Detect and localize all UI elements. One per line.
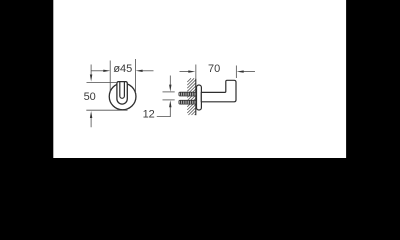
dim 70 left shaft + arrow bbox=[180, 71, 190, 73]
circle C1 (wall plate front view) bbox=[109, 83, 136, 110]
dim Ø45 left extension line bbox=[109, 61, 111, 94]
dim 70 left extension line bbox=[195, 65, 197, 79]
hook tab outer (front view) bbox=[117, 82, 127, 105]
hook tab inner U bbox=[120, 82, 125, 99]
dim 12 bottom shaft + arrow + leader bbox=[157, 107, 171, 117]
background panel bbox=[53, 0, 346, 158]
dim 70 right extension line bbox=[235, 66, 237, 79]
dim 50 top shaft + arrow bbox=[90, 65, 92, 76]
svg-text:ø45: ø45 bbox=[113, 63, 132, 75]
flange (mounting plate side view) bbox=[197, 85, 202, 110]
dim 12 bottom extension line bbox=[163, 99, 175, 101]
wall face line bbox=[195, 78, 197, 115]
hook arm + tip (side view) bbox=[201, 80, 236, 102]
dim Ø45 right extension line bbox=[135, 59, 137, 93]
screw stud S1 (upper) bbox=[179, 92, 197, 96]
dim Ø45 left shaft + arrow bbox=[91, 70, 103, 72]
svg-text:50: 50 bbox=[84, 91, 96, 103]
dim Ø45 right shaft + arrow bbox=[143, 70, 154, 72]
dim 50 bottom shaft + arrow bbox=[90, 118, 92, 128]
dim 12 top extension line bbox=[163, 91, 175, 93]
dim 50 top extension line bbox=[87, 81, 117, 83]
dim 12 top shaft + arrow bbox=[169, 76, 171, 86]
screw stud S2 (lower) bbox=[179, 100, 197, 104]
dim 50 bottom extension line bbox=[86, 109, 127, 111]
dim 70 right shaft + arrow bbox=[244, 71, 256, 73]
svg-text:70: 70 bbox=[208, 63, 220, 75]
wall hatching bbox=[187, 78, 195, 115]
svg-text:12: 12 bbox=[143, 108, 155, 120]
